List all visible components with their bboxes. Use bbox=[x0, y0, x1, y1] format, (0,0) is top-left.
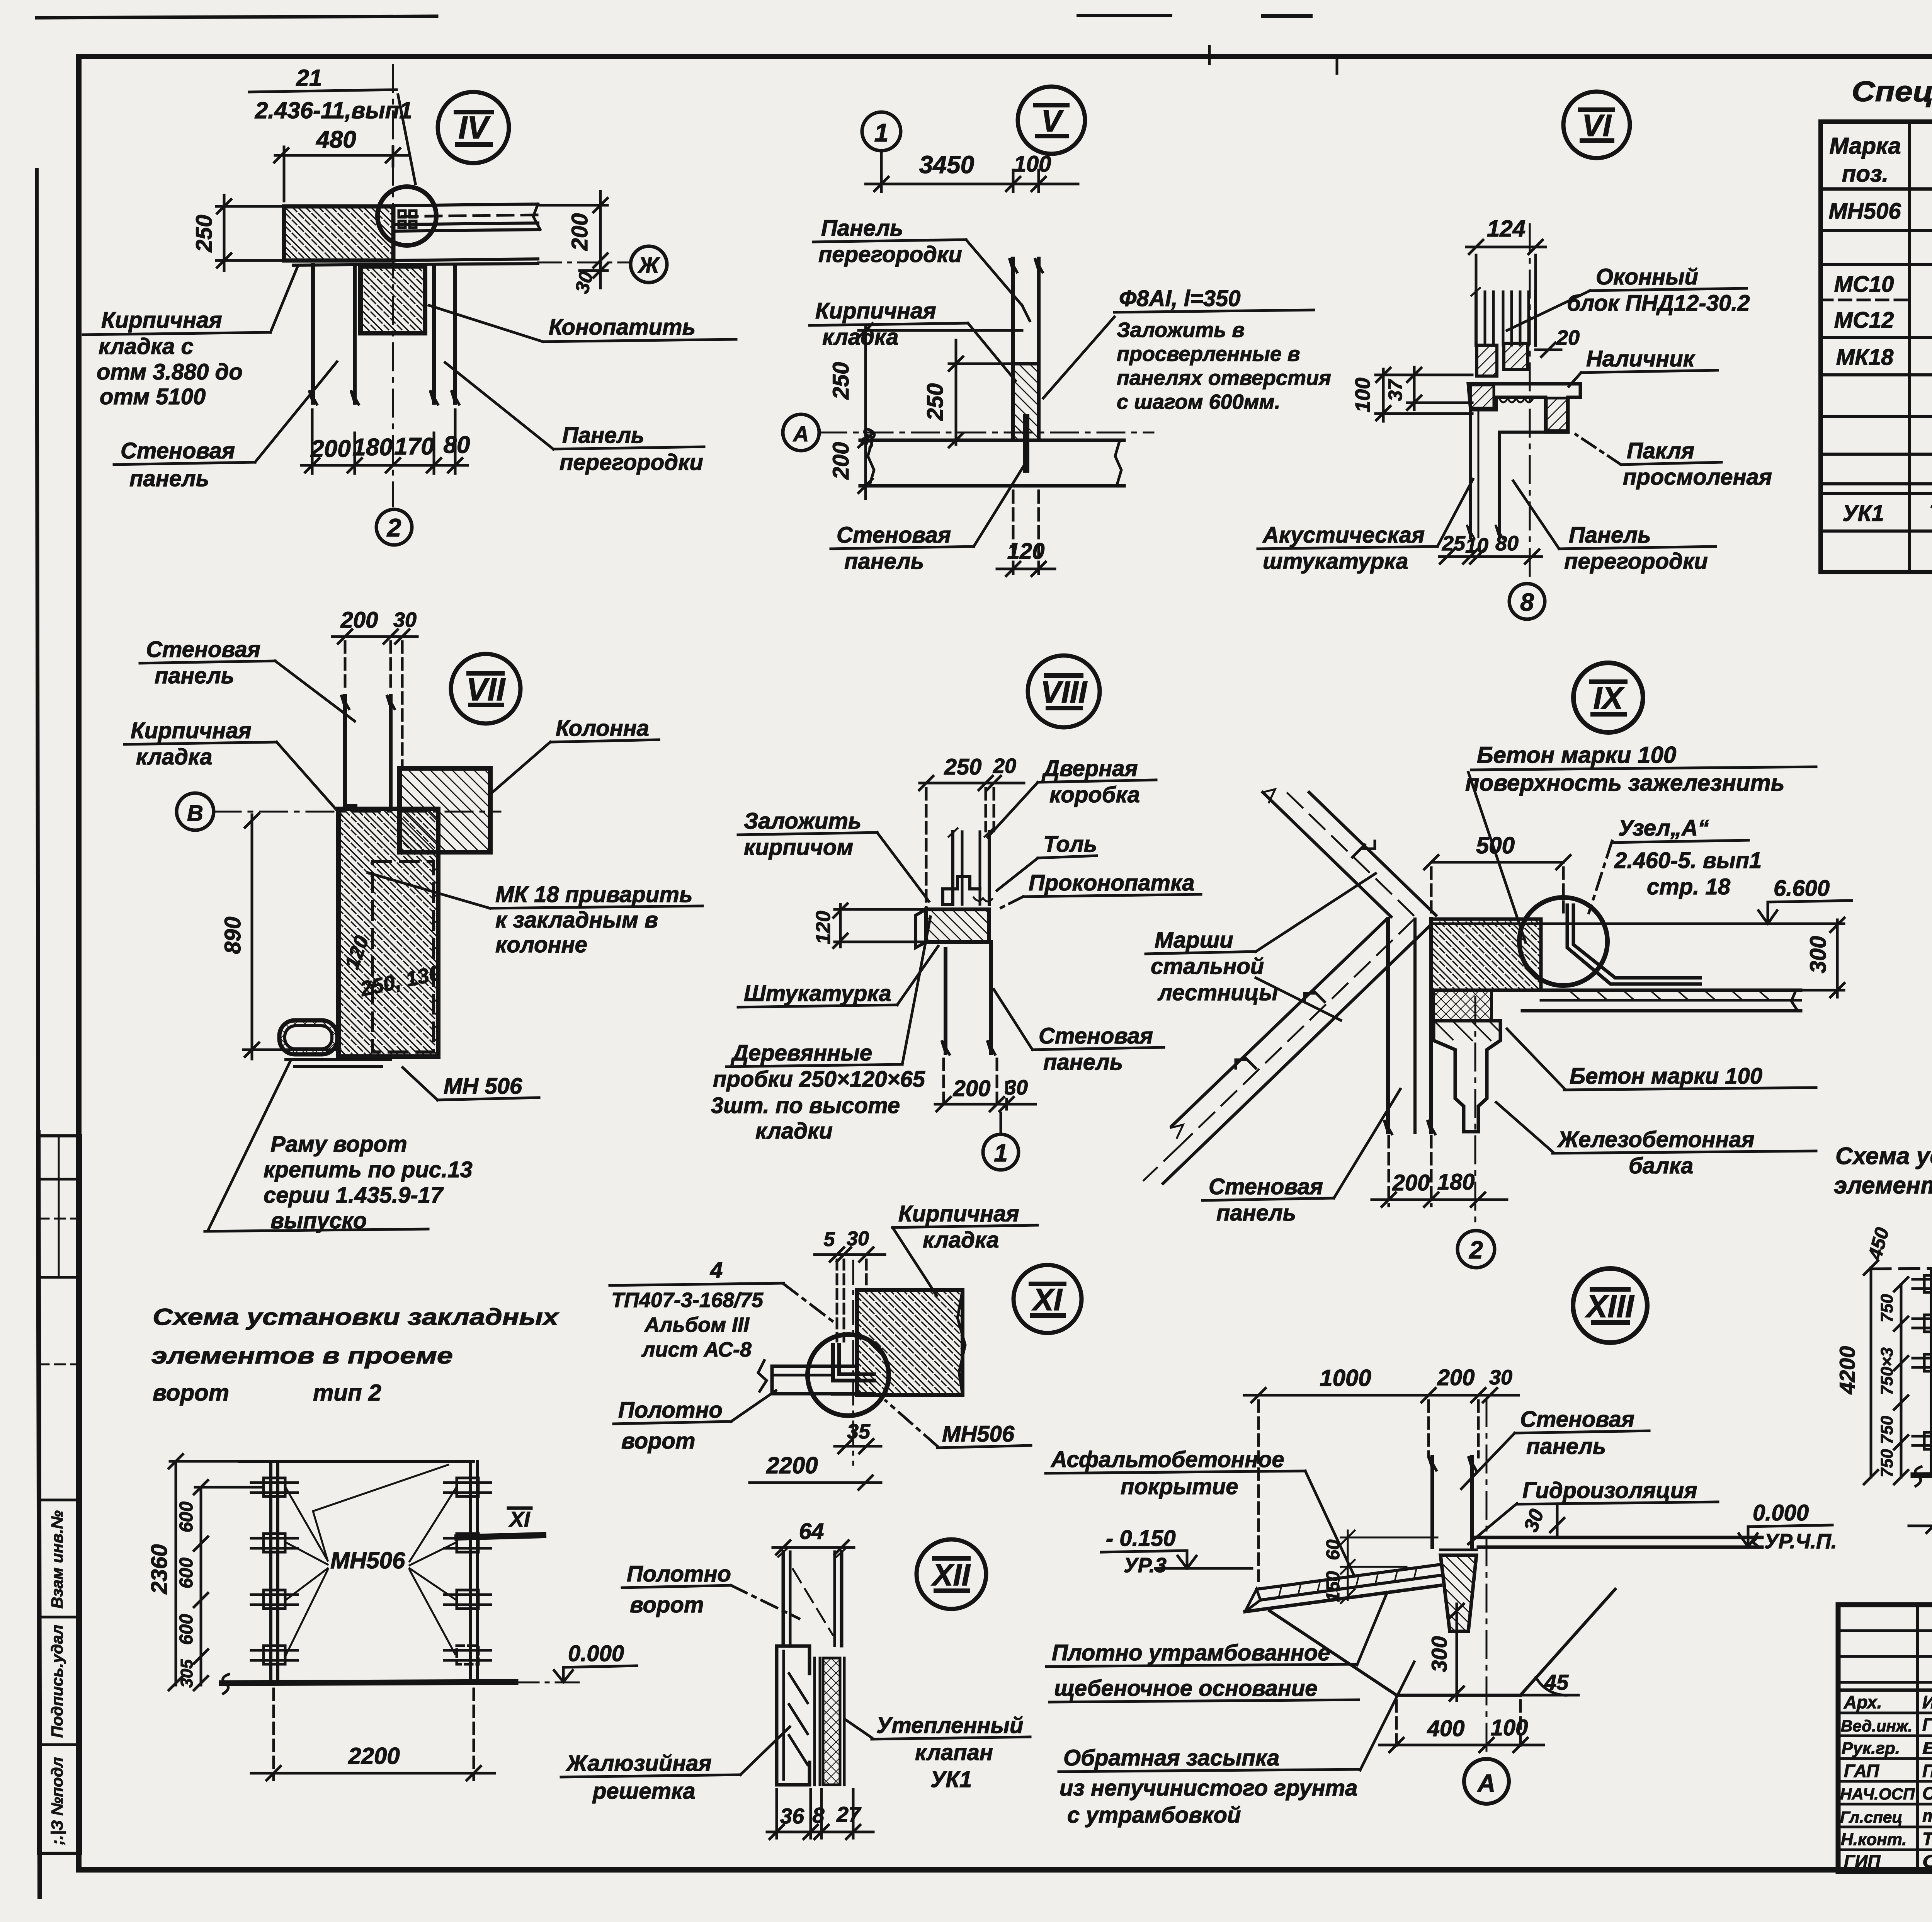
svg-text:Гл.спец: Гл.спец bbox=[1840, 1808, 1902, 1826]
svg-text:УК1: УК1 bbox=[930, 1767, 972, 1792]
svg-text:IV: IV bbox=[458, 110, 491, 145]
embed plates left post tip2 bbox=[251, 1478, 298, 1664]
svg-text:600: 600 bbox=[176, 1558, 197, 1588]
svg-text:Бетон марки 100: Бетон марки 100 bbox=[1477, 742, 1676, 768]
svg-text:6.600: 6.600 bbox=[1774, 876, 1830, 901]
signatures column texts bbox=[1840, 1692, 1932, 1871]
svg-text:Подпись.удал: Подпись.удал bbox=[48, 1625, 66, 1738]
svg-text:27: 27 bbox=[836, 1802, 862, 1827]
svg-text:кирпичом: кирпичом bbox=[744, 835, 853, 860]
spec row MS12 bbox=[1834, 305, 1932, 333]
svg-text:Кирпичная: Кирпичная bbox=[131, 718, 252, 743]
label nalichnik bbox=[1569, 346, 1718, 386]
svg-text:250: 250 bbox=[192, 215, 217, 253]
svg-text:А: А bbox=[1477, 1769, 1495, 1797]
label beton marki 100 top bbox=[1465, 742, 1816, 942]
svg-text:Панель: Панель bbox=[821, 216, 903, 241]
svg-text:Обратная засыпка: Обратная засыпка bbox=[1063, 1745, 1279, 1770]
svg-text:Стеновая: Стеновая bbox=[837, 523, 951, 548]
gate frame tip2 bbox=[240, 1461, 478, 1683]
label akustich shtukaturka bbox=[1258, 479, 1473, 574]
svg-text:305: 305 bbox=[177, 1659, 196, 1688]
svg-text:блок ПНД12-30.2: блок ПНД12-30.2 bbox=[1567, 291, 1750, 316]
label obratnaya zasypka bbox=[1059, 1662, 1414, 1828]
svg-text:решетка: решетка bbox=[592, 1779, 695, 1804]
svg-text:ГАП: ГАП bbox=[1844, 1761, 1879, 1781]
svg-text:200: 200 bbox=[310, 436, 350, 462]
svg-text:панель: панель bbox=[1526, 1434, 1606, 1459]
label brick V bbox=[810, 298, 1015, 381]
svg-text:8: 8 bbox=[812, 1803, 825, 1827]
svg-text:Бескоровайный: Бескоровайный bbox=[1922, 1739, 1932, 1758]
svg-text:Пакля: Пакля bbox=[1627, 438, 1694, 463]
bearing pad cross hatched bbox=[1434, 990, 1492, 1020]
bent closure plate bbox=[1567, 905, 1700, 984]
dim 300 XIII bbox=[1450, 1604, 1464, 1701]
svg-text:890: 890 bbox=[220, 917, 245, 954]
label shtukaturka VIII bbox=[738, 946, 938, 1007]
svg-text:180: 180 bbox=[1437, 1170, 1475, 1195]
svg-text:Толоченко: Толоченко bbox=[1922, 1829, 1932, 1849]
svg-text:5: 5 bbox=[824, 1228, 835, 1251]
axis bubble Zh bbox=[631, 246, 667, 283]
spec table header texts bbox=[1829, 128, 1932, 187]
svg-text:МН506: МН506 bbox=[942, 1421, 1015, 1447]
svg-text:XI: XI bbox=[509, 1507, 531, 1531]
svg-text:4: 4 bbox=[710, 1258, 723, 1283]
detail XI bubble bbox=[1014, 1265, 1082, 1333]
dim column tip2 bbox=[169, 1454, 263, 1690]
svg-text:Вед.инж.: Вед.инж. bbox=[1841, 1717, 1912, 1735]
dim 120 VIII bbox=[833, 904, 923, 948]
svg-text:Саакьянц: Саакьянц bbox=[1922, 1783, 1932, 1803]
label plotno utrambovannoe bbox=[1046, 1592, 1387, 1702]
brick pier hatched VII bbox=[338, 809, 438, 1057]
svg-text:200: 200 bbox=[1437, 1365, 1475, 1390]
beam axis bbox=[1475, 997, 1476, 1227]
svg-text:Панель: Панель bbox=[562, 423, 645, 448]
label zalozhit kirpichom bbox=[738, 809, 929, 901]
svg-text:т.о Кияшко: т.о Кияшко bbox=[1922, 1806, 1932, 1826]
svg-text:2: 2 bbox=[386, 513, 401, 542]
svg-text:200: 200 bbox=[567, 213, 592, 251]
svg-text:200: 200 bbox=[1392, 1170, 1430, 1195]
axis bubble 2 IX bbox=[1458, 1231, 1495, 1268]
svg-text:250: 250 bbox=[944, 754, 982, 780]
embedded rod bbox=[1023, 417, 1029, 470]
wall panel IX bbox=[1384, 919, 1435, 1134]
svg-text:0.000: 0.000 bbox=[568, 1641, 624, 1666]
svg-text:2200: 2200 bbox=[766, 1452, 818, 1478]
label door frame bbox=[988, 756, 1156, 837]
svg-text:Узел„А“: Узел„А“ bbox=[1618, 815, 1709, 841]
column hatched VII bbox=[400, 768, 490, 852]
svg-text:Взам инв.№: Взам инв.№ bbox=[48, 1510, 66, 1609]
window frame and casing bbox=[1468, 343, 1580, 432]
ground line tip1 bbox=[1913, 1474, 1932, 1475]
title block grid bbox=[1838, 1605, 1932, 1871]
label stenovaya panel XIII bbox=[1461, 1407, 1649, 1489]
svg-text:кладка: кладка bbox=[822, 325, 898, 350]
embedded dashed outline bbox=[372, 861, 434, 1052]
embed plates right post tip2 bbox=[444, 1478, 491, 1664]
svg-text:щебеночное основание: щебеночное основание bbox=[1054, 1676, 1318, 1701]
label MN506 VII bbox=[403, 1067, 539, 1100]
svg-text:Железобетонная: Железобетонная bbox=[1557, 1127, 1755, 1152]
svg-text:Плотно утрамбованное: Плотно утрамбованное bbox=[1052, 1640, 1330, 1665]
svg-text:ворот: ворот bbox=[153, 1380, 229, 1406]
node circle on lintel bbox=[378, 187, 436, 245]
svg-text:коробка: коробка bbox=[1049, 782, 1140, 807]
svg-text:2.436-11,вып1: 2.436-11,вып1 bbox=[255, 97, 412, 123]
svg-text:Полотно: Полотно bbox=[627, 1561, 731, 1587]
dim 300 IX bbox=[1781, 918, 1844, 997]
svg-text:балка: балка bbox=[1629, 1153, 1693, 1178]
gate leaf section XII bbox=[778, 1547, 847, 1646]
svg-text:Схема установки закладных: Схема установки закладных bbox=[1835, 1143, 1932, 1170]
svg-text:600: 600 bbox=[176, 1614, 197, 1645]
label gate frame note bbox=[205, 1061, 473, 1233]
axis to zh bbox=[538, 262, 628, 264]
label marshi stairs bbox=[1146, 873, 1376, 1020]
svg-text:серии 1.435.9-17: серии 1.435.9-17 bbox=[264, 1183, 444, 1208]
center axis detail IV bbox=[392, 65, 394, 506]
svg-text:200: 200 bbox=[953, 1076, 991, 1101]
label beton marki 100 lower bbox=[1507, 1029, 1816, 1090]
detail XIII bubble bbox=[1573, 1268, 1647, 1343]
svg-text:150: 150 bbox=[1323, 1571, 1344, 1602]
wall below sill bbox=[1467, 410, 1546, 539]
svg-text:с утрамбовкой: с утрамбовкой bbox=[1067, 1803, 1241, 1828]
svg-text:100: 100 bbox=[1491, 1715, 1528, 1740]
axis bubble 1 bbox=[862, 112, 901, 151]
svg-text:Осташевский: Осташевский bbox=[1922, 1851, 1932, 1871]
MN506 label tip2 with leaders bbox=[286, 1465, 456, 1655]
svg-text:Спецификация элементов к пл: Спецификация элементов к плану на отм. 0… bbox=[1852, 75, 1932, 107]
svg-text:УР.Ч.П.: УР.Ч.П. bbox=[1764, 1530, 1837, 1553]
svg-text:МН 506: МН 506 bbox=[444, 1074, 522, 1099]
insulated flap hatched XII bbox=[823, 1658, 840, 1785]
svg-text:200: 200 bbox=[340, 608, 378, 633]
elevation -0.150 UR3 bbox=[1101, 1526, 1252, 1577]
label MN506 XI bbox=[886, 1401, 1031, 1448]
svg-text:МН506: МН506 bbox=[330, 1547, 405, 1573]
svg-text:панель: панель bbox=[1043, 1050, 1123, 1075]
svg-text:2360: 2360 bbox=[147, 1544, 172, 1594]
dim 250 left bbox=[216, 195, 288, 271]
svg-text:панель: панель bbox=[1216, 1200, 1296, 1226]
dims 100 37 bbox=[1376, 367, 1472, 421]
embed angle XI bbox=[833, 1345, 874, 1394]
dim 3450 / 100 bbox=[866, 170, 1078, 192]
svg-text:480: 480 bbox=[315, 126, 356, 153]
detail IX bubble bbox=[1573, 663, 1643, 732]
svg-text:XII: XII bbox=[931, 1558, 971, 1592]
title schema tip 2 bbox=[151, 1304, 560, 1406]
svg-text:пробки 250×120×65: пробки 250×120×65 bbox=[713, 1067, 925, 1092]
svg-text:Рук.гр.: Рук.гр. bbox=[1842, 1739, 1900, 1758]
label panel peregorodki V bbox=[813, 216, 1030, 321]
svg-text:ворот: ворот bbox=[621, 1428, 695, 1454]
label zhalyuziynaya reshetka XII bbox=[561, 1727, 790, 1804]
foundation block hatched XIII bbox=[1440, 1555, 1476, 1631]
svg-text:ворот: ворот bbox=[630, 1592, 704, 1617]
dims 400 100 XIII bbox=[1379, 1701, 1544, 1752]
svg-text:Акустическая: Акустическая bbox=[1262, 523, 1425, 548]
svg-text:панель: панель bbox=[155, 663, 234, 688]
detail V bubble bbox=[1018, 87, 1085, 154]
dims 25 10 80 bbox=[1439, 550, 1542, 563]
svg-text:перегородки: перегородки bbox=[818, 242, 962, 267]
dim 64 XII bbox=[773, 1541, 854, 1554]
axis bubble V(B) bbox=[177, 793, 214, 830]
ceiling slab line bbox=[294, 259, 538, 265]
label wooden plugs bbox=[711, 917, 930, 1144]
svg-text:Марка: Марка bbox=[1829, 133, 1901, 159]
svg-text:стальной: стальной bbox=[1151, 954, 1264, 979]
svg-text:МК18: МК18 bbox=[1836, 345, 1894, 370]
axis line VI bbox=[1529, 224, 1531, 580]
svg-text:отм 5100: отм 5100 bbox=[100, 384, 206, 409]
label okonny blok bbox=[1507, 264, 1750, 330]
svg-text:перегородки: перегородки bbox=[1564, 549, 1708, 574]
label kolonna bbox=[492, 716, 659, 793]
svg-text:тип 2: тип 2 bbox=[313, 1380, 381, 1406]
svg-text:600: 600 bbox=[176, 1502, 197, 1532]
svg-text:элементов в проеме ворот: элементов в проеме ворот bbox=[1834, 1172, 1932, 1199]
gate frame tip1 bbox=[1871, 1268, 1932, 1474]
label tol bbox=[997, 832, 1097, 890]
label paklya bbox=[1576, 434, 1772, 490]
label stenovaya panel VII bbox=[140, 637, 355, 721]
dim 120 bbox=[997, 491, 1055, 576]
svg-text:30: 30 bbox=[571, 269, 597, 295]
dim 200 180 IX bbox=[1372, 1136, 1507, 1207]
svg-text:Бетон марки 100: Бетон марки 100 bbox=[1570, 1064, 1762, 1089]
svg-text:8: 8 bbox=[1520, 588, 1534, 616]
svg-text:10: 10 bbox=[1465, 534, 1488, 557]
dim 124 bbox=[1466, 240, 1546, 290]
svg-text:колонне: колонне bbox=[495, 932, 587, 957]
svg-text:300: 300 bbox=[1427, 1636, 1451, 1672]
detail XII bubble bbox=[917, 1539, 986, 1609]
svg-text:IX: IX bbox=[1593, 681, 1625, 716]
svg-text:Н.конт.: Н.конт. bbox=[1841, 1830, 1907, 1849]
concrete topping hatched IX bbox=[1431, 919, 1541, 990]
floor slab shelf right IX bbox=[1522, 990, 1801, 1011]
dim 250/200 outer bbox=[859, 323, 1022, 499]
partition hatched block bbox=[361, 266, 425, 333]
svg-text:Заложить в: Заложить в bbox=[1117, 318, 1245, 342]
svg-text:XI: XI bbox=[1031, 1282, 1063, 1317]
label brick VII bbox=[124, 718, 341, 815]
label gidroizolyaciya bbox=[1468, 1478, 1718, 1544]
margin boxes bbox=[39, 1136, 80, 1853]
wall panel VII bbox=[341, 695, 395, 806]
svg-text:перегородки: перегородки bbox=[560, 450, 703, 475]
svg-text:1: 1 bbox=[994, 1139, 1008, 1167]
svg-text:МК 18 приварить: МК 18 приварить bbox=[495, 882, 692, 907]
svg-text:клапан: клапан bbox=[915, 1740, 993, 1765]
svg-text:Деревянные: Деревянные bbox=[730, 1040, 872, 1066]
svg-text:УР.3: УР.3 bbox=[1124, 1554, 1167, 1577]
section mark XI on tip2 bbox=[457, 1507, 543, 1537]
svg-text:Стеновая: Стеновая bbox=[146, 637, 260, 662]
svg-text:Оконный: Оконный bbox=[1596, 264, 1698, 289]
lintel step VIII bbox=[943, 877, 992, 904]
svg-text:Панель: Панель bbox=[1569, 523, 1651, 548]
label stenovaya panel bbox=[114, 362, 337, 491]
svg-text:просверленные в: просверленные в bbox=[1117, 342, 1300, 366]
svg-text:Стеновая: Стеновая bbox=[121, 438, 235, 463]
svg-text:Ищенко: Ищенко bbox=[1922, 1692, 1932, 1712]
svg-text:Стеновая: Стеновая bbox=[1209, 1174, 1323, 1199]
door frame section bbox=[949, 828, 993, 904]
svg-text:750: 750 bbox=[1878, 1416, 1896, 1444]
label MK18 weld note bbox=[368, 873, 702, 957]
detail IV ref text 21 / 2.436-11 bbox=[249, 65, 415, 184]
svg-text:1000: 1000 bbox=[1320, 1365, 1371, 1391]
svg-text:лестницы: лестницы bbox=[1157, 980, 1278, 1005]
svg-text:Раму ворот: Раму ворот bbox=[270, 1132, 407, 1157]
svg-text:поз.: поз. bbox=[1842, 161, 1889, 187]
svg-text:2200: 2200 bbox=[348, 1743, 400, 1769]
wall panel left below bbox=[309, 265, 359, 404]
svg-text:Штукатурка: Штукатурка bbox=[744, 981, 891, 1006]
label prokonopatka bbox=[1000, 870, 1201, 908]
svg-text:Кирпичная: Кирпичная bbox=[101, 308, 222, 333]
svg-text:Схема установки закладных: Схема установки закладных bbox=[153, 1304, 560, 1330]
svg-text:панелях отверстия: панелях отверстия bbox=[1117, 366, 1331, 390]
brick infill lower part bbox=[1013, 364, 1039, 440]
svg-text:124: 124 bbox=[1487, 216, 1526, 242]
svg-text:Арх.: Арх. bbox=[1844, 1692, 1882, 1712]
dim 200/30 right bbox=[538, 191, 607, 288]
svg-text:;.|З №подл: ;.|З №подл bbox=[48, 1757, 66, 1845]
svg-text:Альбом III: Альбом III bbox=[644, 1313, 750, 1336]
svg-text:Ж: Ж bbox=[637, 253, 660, 278]
label stenovaya panel VIII bbox=[994, 989, 1164, 1075]
detail IV bubble bbox=[438, 92, 509, 163]
svg-text:180: 180 bbox=[352, 434, 392, 461]
svg-text:отм 3.880 до: отм 3.880 до bbox=[97, 359, 243, 385]
dim 2200 tip2 bbox=[251, 1689, 495, 1780]
lintel hatched VIII bbox=[926, 909, 989, 942]
node circle XI bbox=[808, 1335, 889, 1416]
svg-text:400: 400 bbox=[1427, 1716, 1465, 1741]
louvre grille bbox=[393, 204, 540, 231]
spec row UK1 bbox=[1842, 499, 1932, 526]
wall panel below VIII bbox=[942, 942, 995, 1054]
svg-text:30: 30 bbox=[1520, 1506, 1548, 1535]
rc beam IX bbox=[1434, 1021, 1500, 1132]
dim 2200 XI bbox=[750, 1476, 881, 1490]
svg-text:80: 80 bbox=[1495, 532, 1519, 555]
svg-text:В: В bbox=[187, 801, 203, 826]
dim 250 20 VIII bbox=[919, 776, 1024, 908]
label F8AI rebar note bbox=[1043, 286, 1331, 414]
detail VI bubble bbox=[1563, 92, 1630, 158]
node circle A IX bbox=[1519, 897, 1607, 986]
svg-text:Полотно: Полотно bbox=[618, 1398, 723, 1423]
svg-text:20: 20 bbox=[1556, 326, 1580, 349]
svg-text:Кирпичная: Кирпичная bbox=[815, 298, 936, 323]
brick block XI bbox=[857, 1290, 963, 1395]
svg-text:100: 100 bbox=[1351, 378, 1374, 412]
svg-text:Заложить: Заложить bbox=[744, 809, 861, 834]
svg-text:лист АС-8: лист АС-8 bbox=[641, 1338, 752, 1361]
spec row MS10 bbox=[1834, 270, 1932, 335]
ground line tip2 bbox=[222, 1682, 515, 1683]
axis bubble 8 bbox=[1509, 584, 1545, 619]
svg-text:МС12: МС12 bbox=[1834, 308, 1894, 333]
svg-text:100: 100 bbox=[1014, 152, 1051, 177]
label brick masonry note bbox=[83, 267, 298, 409]
svg-text:ГИП: ГИП bbox=[1844, 1851, 1881, 1871]
svg-text:стр. 18: стр. 18 bbox=[1647, 874, 1731, 899]
svg-text:Дверная: Дверная bbox=[1041, 756, 1138, 781]
svg-text:25: 25 bbox=[1442, 532, 1466, 555]
svg-text:300: 300 bbox=[1806, 936, 1831, 974]
svg-text:30: 30 bbox=[393, 608, 417, 632]
svg-text:МС10: МС10 bbox=[1834, 272, 1894, 297]
floor slab XIII bbox=[1472, 1537, 1762, 1547]
svg-text:VIII: VIII bbox=[1041, 675, 1088, 709]
gate leaf XI bbox=[758, 1360, 857, 1394]
svg-text:кладка с: кладка с bbox=[99, 334, 194, 359]
lower channel and grille XII bbox=[777, 1646, 820, 1785]
svg-text:170: 170 bbox=[394, 433, 434, 460]
svg-text:Наличник: Наличник bbox=[1586, 346, 1696, 371]
label polotno vorot XII bbox=[622, 1561, 799, 1619]
elevation 0.000 tip2 bbox=[554, 1641, 637, 1682]
svg-text:Жалюзийная: Жалюзийная bbox=[565, 1751, 712, 1776]
label stenovaya panel IX bbox=[1202, 1089, 1400, 1226]
MN506 channel VII bbox=[279, 1020, 390, 1067]
svg-text:3шт. по высоте: 3шт. по высоте bbox=[711, 1093, 900, 1118]
svg-text:0.000: 0.000 bbox=[1753, 1500, 1809, 1525]
svg-text:30: 30 bbox=[1005, 1076, 1028, 1099]
svg-text:просмоленая: просмоленая bbox=[1623, 465, 1772, 490]
label stenovaya panel V bbox=[831, 467, 1023, 574]
svg-text:V: V bbox=[1041, 104, 1064, 138]
svg-text:Асфальтобетонное: Асфальтобетонное bbox=[1050, 1447, 1284, 1472]
elevation 6.600 bbox=[1739, 876, 1852, 924]
bottom dims 200 180 170 80 bbox=[301, 410, 468, 473]
window block section bbox=[1471, 288, 1536, 345]
label konopatit bbox=[429, 305, 736, 342]
title schema tip 1 bbox=[1834, 1143, 1932, 1229]
asphalt ramp XIII bbox=[1245, 1564, 1440, 1612]
brick lintel hatched bbox=[284, 206, 393, 260]
svg-text:элементов в проеме: элементов в проеме bbox=[151, 1343, 453, 1369]
svg-text:30: 30 bbox=[1489, 1366, 1512, 1389]
stair lower flight bbox=[1144, 919, 1431, 1183]
dims 36 8 27 XII bbox=[767, 1789, 873, 1839]
excavation XIII bbox=[1270, 1589, 1615, 1695]
svg-text:Утепленный: Утепленный bbox=[876, 1713, 1023, 1738]
svg-text:панель: панель bbox=[844, 549, 924, 574]
svg-text:200: 200 bbox=[828, 442, 854, 480]
label polotno vorot XI bbox=[614, 1391, 776, 1454]
svg-text:80: 80 bbox=[444, 432, 470, 458]
dim 5 30 XI bbox=[815, 1248, 885, 1341]
svg-text:Петровский: Петровский bbox=[1922, 1761, 1932, 1781]
svg-text:ТП904-1- -КЖИ-УК1: ТП904-1- -КЖИ-УК1 bbox=[1929, 501, 1932, 526]
svg-text:21: 21 bbox=[296, 65, 322, 91]
svg-text:2.460-5. вып1: 2.460-5. вып1 bbox=[1614, 848, 1762, 873]
svg-text:250: 250 bbox=[828, 362, 854, 400]
